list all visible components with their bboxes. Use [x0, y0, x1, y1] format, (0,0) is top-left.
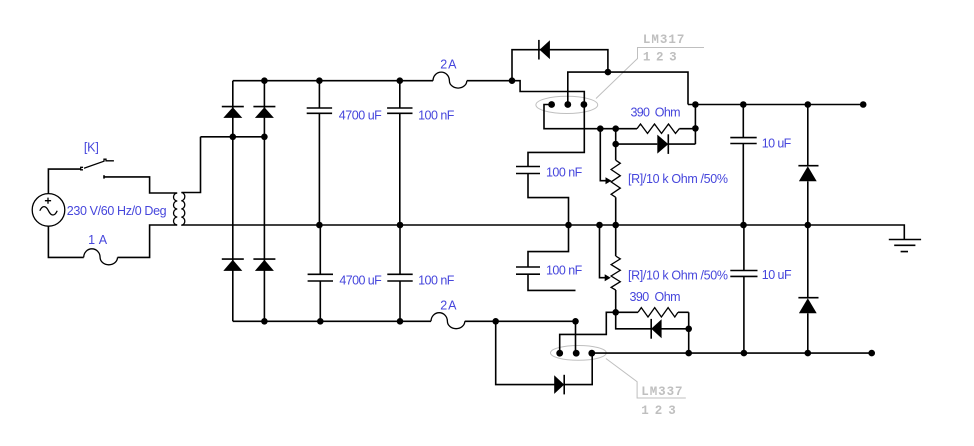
svg-text:1 2 3: 1 2 3: [641, 404, 676, 418]
svg-text:390 Ohm: 390 Ohm: [631, 106, 681, 120]
svg-text:[K]: [K]: [84, 140, 99, 154]
svg-text:4700 uF: 4700 uF: [339, 274, 382, 288]
svg-text:2 A: 2 A: [440, 57, 457, 71]
svg-text:1 2 3: 1 2 3: [643, 50, 677, 64]
svg-text:[R]/10 k Ohm /50%: [R]/10 k Ohm /50%: [628, 172, 728, 186]
svg-text:LM317: LM317: [643, 33, 685, 47]
svg-text:100 nF: 100 nF: [546, 264, 583, 278]
svg-text:10 uF: 10 uF: [762, 137, 792, 151]
svg-text:4700 uF: 4700 uF: [339, 108, 382, 122]
svg-text:10 uF: 10 uF: [762, 268, 792, 282]
svg-text:390 Ohm: 390 Ohm: [630, 290, 681, 304]
svg-text:100 nF: 100 nF: [418, 108, 455, 122]
svg-text:[R]/10 k Ohm /50%: [R]/10 k Ohm /50%: [628, 269, 728, 283]
svg-text:100 nF: 100 nF: [546, 165, 583, 179]
svg-text:LM337: LM337: [641, 385, 682, 399]
svg-text:2 A: 2 A: [440, 298, 457, 312]
svg-text:100 nF: 100 nF: [418, 274, 455, 288]
svg-text:1 A: 1 A: [88, 233, 108, 247]
svg-text:230 V/60 Hz/0 Deg: 230 V/60 Hz/0 Deg: [67, 204, 167, 218]
